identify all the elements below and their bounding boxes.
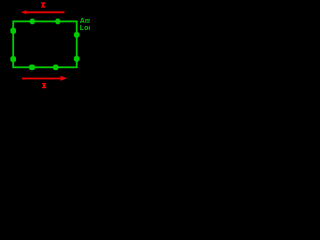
label I top: [41, 2, 45, 8]
loop arrow top-right (pointing left): [55, 19, 60, 25]
current arrow top (pointing left): [26, 11, 65, 13]
label I bottom: [42, 83, 46, 88]
background: [0, 0, 90, 90]
loop arrow left-lower (pointing down): [10, 56, 16, 62]
loop arrow right-lower (pointing up): [74, 56, 80, 62]
amperian loop rectangle: [13, 21, 76, 67]
loop arrow bottom-left (pointing right): [29, 65, 35, 71]
current arrow bottom (pointing right): [22, 78, 61, 80]
svg-text:Loop: Loop: [80, 25, 90, 32]
loop arrow left-upper (pointing down): [10, 28, 16, 34]
loop arrow right-upper (pointing up): [74, 32, 80, 38]
loop arrow top-left (pointing left): [30, 19, 35, 25]
svg-text:Ampere: Ampere: [80, 18, 90, 25]
loop arrow bottom-right (pointing right): [53, 65, 59, 71]
